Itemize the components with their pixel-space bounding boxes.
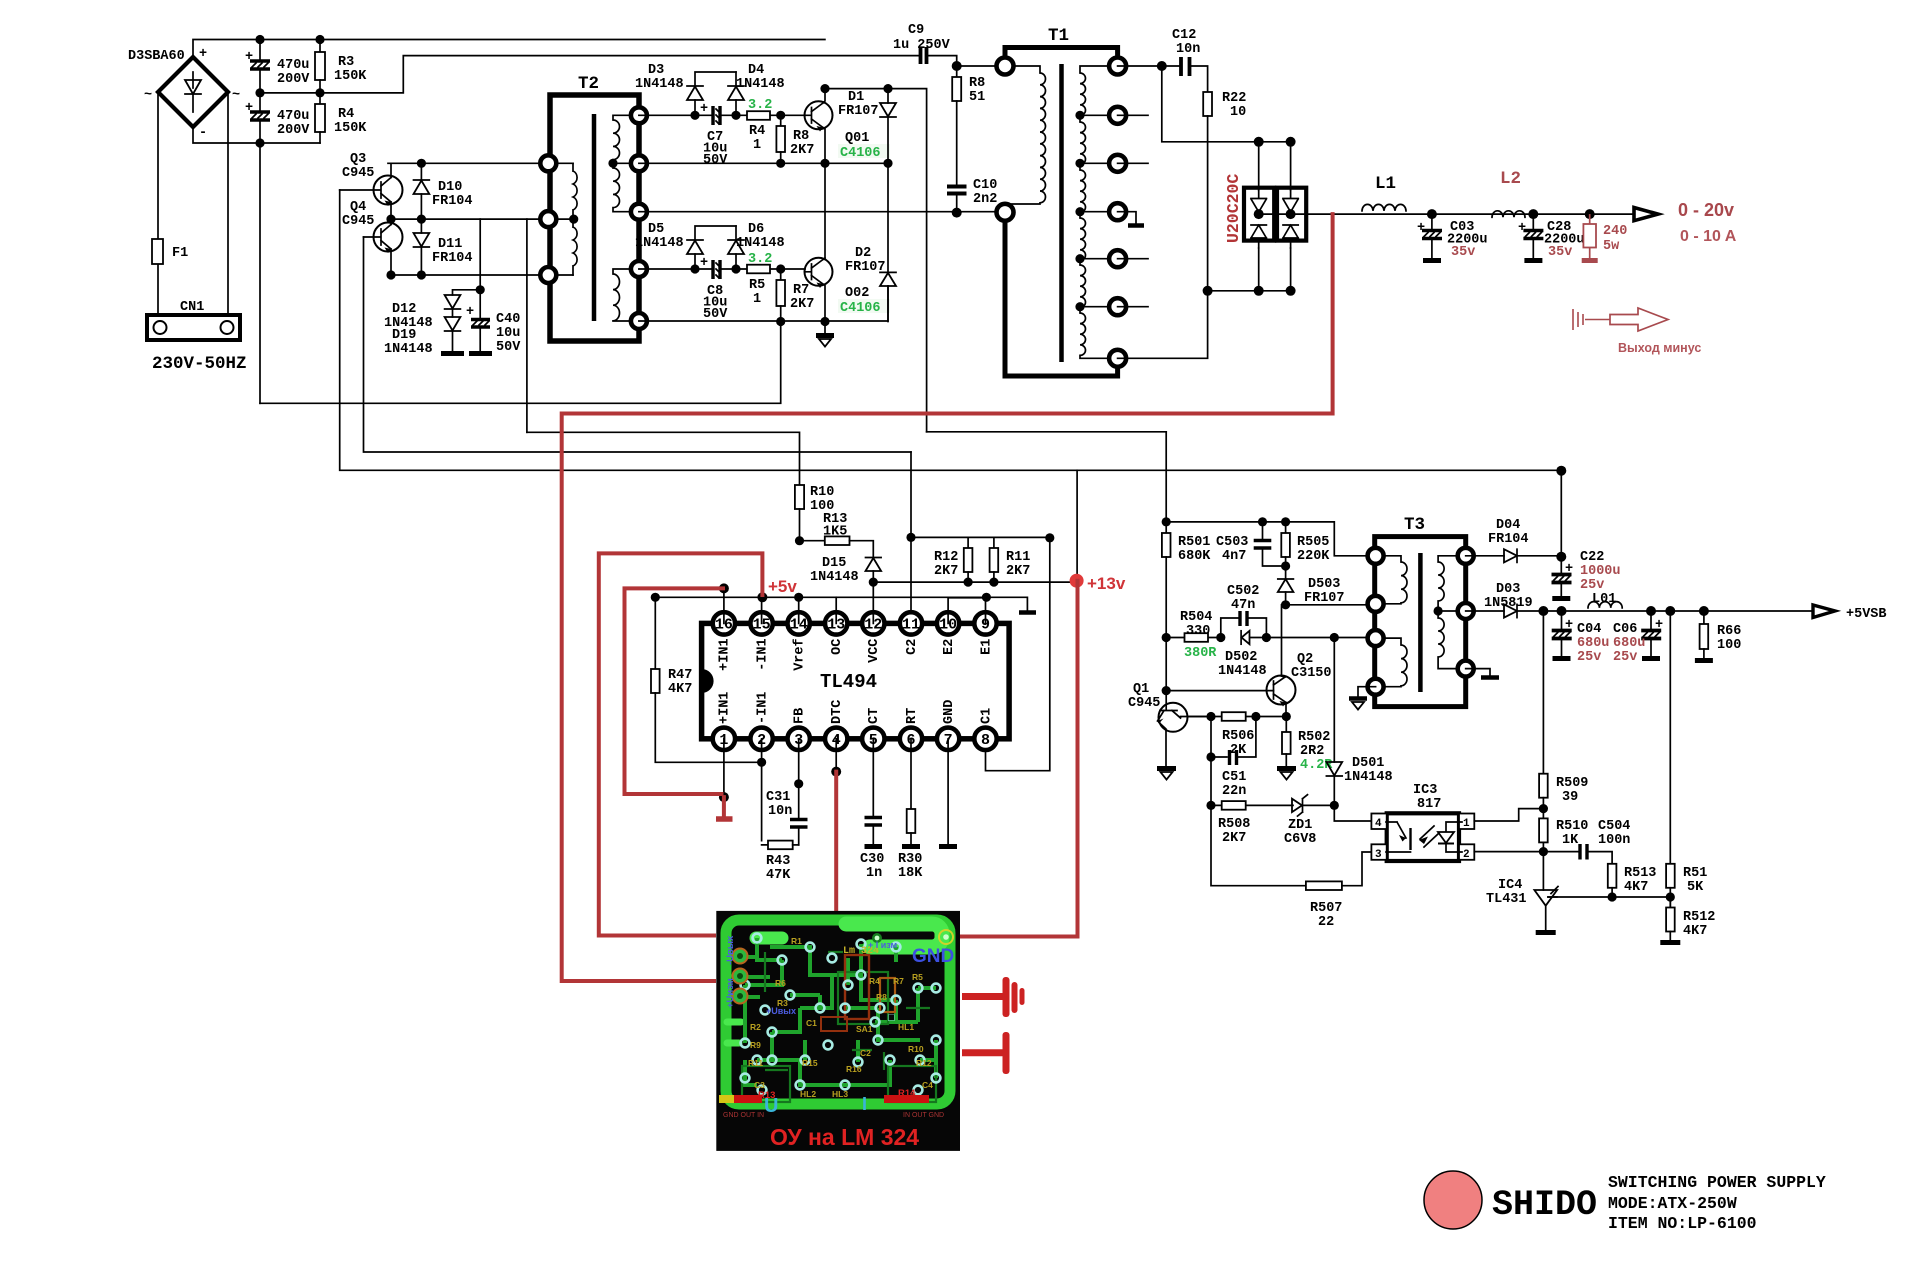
ground bar D19 [441,351,464,356]
svg-text:VCC: VCC [867,639,882,663]
svg-text:11: 11 [902,617,920,634]
svg-text:R501: R501 [1178,535,1210,550]
node DTC [831,767,841,777]
svg-text:Q4: Q4 [350,200,366,215]
svg-text:25v: 25v [1577,650,1601,665]
connector red lower right of PCB [962,1032,1010,1074]
wire Q3 collector rail [388,162,548,164]
wire T2 pin1 to Q01 base [639,114,805,116]
svg-text:4: 4 [1375,818,1382,830]
capacitor C51 22n [1211,717,1256,800]
svg-text:R509: R509 [1556,776,1588,791]
wire IC3 pin2 to R510 bottom [1474,851,1543,853]
node C03 [1427,209,1437,219]
node R502 top [1282,712,1291,721]
wire pin2 riser down [762,739,768,845]
wire Q1c R506 R502 row [1188,716,1286,718]
capacitor C03 2200u 35v [1417,214,1488,260]
resistor R11 2K7 [990,537,1031,582]
svg-text:R1: R1 [791,936,802,946]
transformer T1 [997,26,1127,376]
wire Q3 base run [340,190,1562,470]
svg-text:10n: 10n [768,804,792,819]
svg-text:R6: R6 [775,978,786,988]
svg-text:680K: 680K [1178,549,1211,564]
node D04 C22 [1556,552,1566,562]
svg-text:0 - 20v: 0 - 20v [1678,200,1734,220]
svg-text:Vref: Vref [793,638,808,670]
node R10 R13 [795,536,804,545]
wire R7 bottom to feedback [260,322,781,404]
capacitor C28 2200u 35v [1518,214,1585,260]
svg-text:U20C20C: U20C20C [1224,174,1243,243]
svg-text:R4: R4 [749,124,765,139]
svg-text:R7: R7 [893,976,904,986]
resistor R47 4K7 [651,597,762,762]
node emitter rail D11 [417,270,426,279]
node R47 pin2 [757,758,766,767]
svg-text:380R: 380R [1184,646,1217,661]
svg-text:2K7: 2K7 [1222,831,1246,846]
svg-text:R12: R12 [916,1058,932,1068]
svg-text:TL431: TL431 [1486,892,1527,907]
node D502 right [1262,633,1271,642]
node R508 left [1206,801,1215,810]
wire R507 row to pin3 [1211,805,1371,885]
svg-text:240: 240 [1603,224,1627,239]
svg-text:+: + [466,305,474,320]
svg-text:+: + [1417,221,1425,236]
svg-text:R47: R47 [668,668,692,683]
svg-text:D1: D1 [848,90,864,105]
resistor R506 2K [1222,712,1255,758]
svg-text:1: 1 [1463,818,1470,830]
svg-text:GND: GND [942,700,957,724]
node emitter rail [386,270,395,279]
svg-text:470u: 470u [277,58,309,73]
svg-text:R507: R507 [1310,901,1342,916]
svg-text:+IN1: +IN1 [718,692,733,724]
diode D1 FR107 [838,89,896,273]
svg-text:C30: C30 [860,852,884,867]
svg-text:Q2: Q2 [1297,652,1313,667]
svg-text:SWITCHING POWER SUPPLY: SWITCHING POWER SUPPLY [1608,1173,1826,1192]
svg-text:R505: R505 [1297,535,1329,550]
node +13v [1070,574,1084,588]
svg-text:4n7: 4n7 [1222,549,1246,564]
wire pin14 riser [798,597,800,623]
svg-text:18K: 18K [898,866,923,881]
wire R22 return to T1 pin7 [1118,291,1208,359]
wire AC left leg [157,92,159,315]
inductor L1 [1362,204,1406,210]
wire T1 pin1 to C12 [1118,65,1181,67]
svg-text:C31: C31 [766,790,790,805]
svg-text:+Uвых: +Uвых [766,1006,796,1016]
wire base rail down D501 [1333,638,1335,763]
node D3 anode [690,111,699,120]
node pin1 red join [719,792,729,802]
node R513 bottom [1608,892,1617,901]
diode D501 1N4148 [1326,756,1392,805]
svg-text:+: + [245,50,253,65]
wire bridge columns top [1259,142,1291,190]
node pin11 rail [906,533,915,542]
node R506 right [1251,712,1260,721]
svg-text:R2: R2 [750,1022,761,1032]
svg-text:L1: L1 [1375,174,1396,194]
wire Q01e to Q02c riser [824,163,826,258]
diode D10 FR104 [414,163,473,219]
svg-text:R5: R5 [749,278,765,293]
wire Q1Q2 base link [1166,690,1273,692]
svg-text:L01: L01 [1592,592,1616,607]
svg-text:D10: D10 [438,180,462,195]
svg-text:2K: 2K [1230,743,1247,758]
svg-text:R43: R43 [766,854,790,869]
svg-text:1N4148: 1N4148 [1344,770,1393,785]
svg-text:100n: 100n [1598,833,1630,848]
svg-text:1N4148: 1N4148 [635,77,684,92]
wire R504 row [1166,637,1334,639]
ground T1 pin4 [1118,212,1144,226]
svg-text:C40: C40 [496,312,520,327]
svg-text:+: + [1518,221,1526,236]
node D15 pin12 [869,578,878,587]
svg-text:0 - 10 A: 0 - 10 A [1680,228,1737,245]
ground T3 right pin3 [1466,669,1499,678]
node R11 bottom [989,578,998,587]
svg-text:ITEM NO:LP-6100: ITEM NO:LP-6100 [1608,1214,1757,1233]
svg-text:1N4148: 1N4148 [1218,664,1267,679]
svg-text:200V: 200V [277,123,310,138]
resistor R30 18K [898,739,923,881]
svg-text:IC3: IC3 [1413,783,1437,798]
svg-text:C4106: C4106 [840,301,881,316]
wire pin15 riser [761,597,763,623]
capacitor C12 10n [1172,28,1208,92]
wire PWM drive from T2 tap [527,432,800,485]
svg-text:IC4: IC4 [1498,878,1522,893]
svg-text:C503: C503 [1216,535,1248,550]
svg-text:4K7: 4K7 [1683,924,1707,939]
svg-text:R4: R4 [338,107,354,122]
node C9 R8 junction [952,61,962,71]
node mid rail D11 [417,215,426,224]
svg-text:C04: C04 [1577,622,1601,637]
node D503 bottom [1281,600,1290,609]
resistor R66 100 [1695,611,1741,661]
resistor R510 1K [1539,818,1588,890]
resistor R4 150K [315,93,367,143]
resistor R8 51 [952,66,985,185]
resistor R43 47K [766,841,799,883]
node D1 top [883,84,892,93]
node R51 bottom [1666,892,1675,901]
wire HV- long vertical [259,143,261,403]
svg-text:8: 8 [981,732,990,749]
connector red upper right of PCB [962,977,1025,1017]
transistor Q01 C4106 [805,89,891,164]
resistor R5 1 [747,265,770,307]
wire red +5v loop [599,553,763,935]
svg-text:C4106: C4106 [840,146,881,161]
svg-text:ZD1: ZD1 [1288,818,1312,833]
svg-text:MODE:ATX-250W: MODE:ATX-250W [1608,1194,1737,1213]
svg-text:22n: 22n [1222,784,1246,799]
node C7 right [731,111,740,120]
node C40 D12 [476,285,485,294]
node emitter rail Q01 [820,159,829,168]
ground R502 [1277,769,1296,780]
svg-text:R8: R8 [876,992,887,1002]
capacitor C7 10u 50V [700,102,728,168]
svg-text:5w: 5w [1603,239,1620,254]
svg-text:1N5819: 1N5819 [1484,596,1533,611]
svg-text:R504: R504 [1180,610,1212,625]
node top rail junction C-left [255,35,264,44]
ground Q1 [1157,769,1176,780]
node pin8 riser top [1045,533,1054,542]
wire T3 pin3 rail [1334,637,1375,639]
resistor R8 2K7 [776,115,814,163]
wire pin4 DTC stub [835,739,837,772]
wire mid rail [260,56,919,93]
svg-text:C945: C945 [342,166,374,181]
fuse F1 [152,239,188,264]
shunt IC4 TL431 [1486,878,1558,931]
svg-text:C3150: C3150 [1291,666,1332,681]
svg-text:2K7: 2K7 [790,297,814,312]
resistor R51 5K [1666,864,1707,908]
wire red DTC to PCB [834,772,838,911]
output arrow 0-20v [1634,208,1658,221]
node C503 top [1258,517,1267,526]
wire R508 ZD1 row [1211,757,1334,805]
resistor R507 22 [1306,881,1343,930]
diode D12 1N4148 [384,295,460,331]
node C04 [1557,606,1567,616]
svg-text:D501: D501 [1352,756,1384,771]
node top rail junction R3 [315,35,324,44]
svg-text:2: 2 [1463,849,1470,861]
diode D503 FR107 [1278,577,1345,606]
resistor R505 220K [1281,522,1330,579]
svg-text:200V: 200V [277,72,310,87]
svg-text:47n: 47n [1231,598,1255,613]
svg-text:~: ~ [144,88,152,103]
wire Q2 collector riser [1281,605,1283,676]
svg-text:C51: C51 [1222,770,1246,785]
svg-text:CN1: CN1 [180,300,204,315]
node pin14 top [794,593,803,602]
node emitter rail R8 [776,159,785,168]
wire emitter rail [639,162,888,164]
ground R512 [1660,940,1680,945]
resistor R502 2R2 [1282,717,1333,774]
svg-text:150K: 150K [334,121,367,136]
svg-text:35v: 35v [1548,245,1572,260]
capacitor C04 680u 25v [1552,611,1610,665]
svg-text:R15: R15 [802,1058,818,1068]
svg-text:T3: T3 [1404,515,1425,535]
node D5 anode [690,264,699,273]
node emitter rail D1 [883,159,892,168]
svg-text:R51: R51 [1683,866,1707,881]
wire VCC rail +13v [873,581,1076,583]
wire Q3e/Q4c mid rail [391,218,548,220]
svg-text:680u: 680u [1577,636,1609,651]
svg-text:50V: 50V [703,153,728,168]
resistor R513 4K7 [1608,864,1657,897]
svg-text:D5: D5 [648,222,664,237]
node bleeder [1585,209,1595,219]
diode D03 1N5819 [1466,582,1813,618]
wire red feedback main [562,214,1333,981]
svg-text:FB: FB [793,708,808,724]
svg-text:C502: C502 [1227,584,1259,599]
svg-text:TL494: TL494 [820,671,877,693]
pin labels TL494 [718,638,995,724]
diode D4 1N4148 [728,63,785,115]
svg-text:FR107: FR107 [838,104,879,119]
node R510 bottom [1539,847,1548,856]
svg-text:R30: R30 [898,852,922,867]
svg-text:47K: 47K [766,868,791,883]
diode D5 1N4148 [635,222,736,269]
capacitor C503 4n7 [1216,522,1286,566]
svg-text:+: + [199,47,207,62]
svg-text:10: 10 [1230,105,1246,120]
ground TL431 [1536,930,1556,935]
svg-text:10u: 10u [496,326,520,341]
svg-text:D502: D502 [1225,650,1257,665]
resistor R501 680K [1162,522,1211,638]
svg-text:C6V8: C6V8 [1284,832,1316,847]
node C12 left [1157,61,1167,71]
svg-text:+ I изм: + I изм [868,940,898,950]
svg-text:RT: RT [905,708,920,724]
svg-text:C1: C1 [806,1018,817,1028]
node C51 left low [1206,752,1215,761]
svg-text:FR107: FR107 [1304,591,1345,606]
rectifier U20C20C [1224,174,1306,248]
svg-text:+: + [700,256,708,271]
node 5VSB rail top [1556,466,1566,476]
svg-text:680u: 680u [1613,636,1645,651]
capacitor C504 100n [1543,819,1630,864]
svg-text:~: ~ [232,88,240,103]
capacitor C31 10n [766,784,808,845]
node bridge bottom right [1286,286,1296,296]
node bottom rail [255,138,264,147]
svg-text:-IN1: -IN1 [755,638,770,670]
inductor L2 [1492,211,1525,217]
node C8 right [731,264,740,273]
svg-text:C9: C9 [908,23,924,38]
svg-text:R8: R8 [969,76,985,91]
node R5 right [776,264,785,273]
wire T2 tap down to PWM [526,219,528,432]
node bridge bottom left [1254,286,1264,296]
svg-text:D12: D12 [392,302,416,317]
svg-text:FR104: FR104 [432,251,473,266]
node mid rail R3 [315,88,324,97]
svg-text:C4: C4 [922,1080,933,1090]
node base rail T3pin3 [1330,633,1339,642]
svg-text:R513: R513 [1624,866,1656,881]
svg-text:D3SBA60: D3SBA60 [128,49,185,64]
capacitor C10 2n2 [947,178,997,213]
wire bridge bottom rail [1208,290,1291,292]
svg-text:SHIDO: SHIDO [1492,1185,1597,1225]
svg-text:51: 51 [969,90,985,105]
svg-text:-: - [199,126,207,141]
node R12 bottom [964,578,973,587]
svg-text:R7: R7 [793,283,809,298]
wire Q4 emitter rail [391,274,548,276]
node R66 [1699,606,1709,616]
resistor R22 10 [1203,91,1246,291]
svg-text:2K7: 2K7 [934,564,958,579]
wire standby top rail [1166,522,1375,556]
svg-text:FR104: FR104 [1488,532,1529,547]
svg-text:1N4148: 1N4148 [736,77,785,92]
node bottom rail R7 [776,317,785,326]
wire AC right leg [227,92,229,315]
wire pin11 riser [910,452,912,623]
svg-text:150K: 150K [334,69,367,84]
svg-text:C945: C945 [342,214,374,229]
svg-text:35v: 35v [1451,245,1475,260]
svg-text:R3: R3 [338,55,354,70]
svg-text:D503: D503 [1308,577,1340,592]
svg-text:R8: R8 [793,129,809,144]
resistor R12 2K7 [911,537,1050,582]
svg-text:4K7: 4K7 [1624,880,1648,895]
svg-text:T2: T2 [578,74,599,94]
wire HV sense to R501 [927,431,1167,433]
wire Q4 base run [364,237,912,452]
svg-text:R508: R508 [1218,817,1250,832]
node R501 bottom [1162,633,1171,642]
svg-text:R512: R512 [1683,910,1715,925]
capacitor C30 1n [860,739,884,881]
svg-text:GND: GND [912,946,954,967]
node FB [794,779,803,788]
resistor R504 330 [1180,610,1217,661]
svg-text:R22: R22 [1222,91,1246,106]
wire T2 pin4 to Q02 base [639,268,805,270]
svg-text:25v: 25v [1580,578,1604,593]
svg-text:+5v: +5v [768,577,797,596]
svg-text:C504: C504 [1598,819,1630,834]
svg-text:220K: 220K [1297,549,1330,564]
svg-text:ОУ на LM 324: ОУ на LM 324 [770,1124,919,1150]
svg-text:+: + [245,101,253,116]
svg-text:R10: R10 [908,1044,924,1054]
svg-text:1N4148: 1N4148 [736,236,785,251]
svg-text:22: 22 [1318,915,1334,930]
ground Q02 [816,322,834,347]
svg-text:5K: 5K [1687,880,1704,895]
svg-text:T1: T1 [1048,26,1069,46]
capacitor C8 10u 50V [700,256,728,322]
svg-text:D6: D6 [748,222,764,237]
svg-text:10n: 10n [1176,42,1200,57]
svg-text:R16: R16 [846,1064,862,1074]
svg-text:L2: L2 [1500,169,1521,189]
